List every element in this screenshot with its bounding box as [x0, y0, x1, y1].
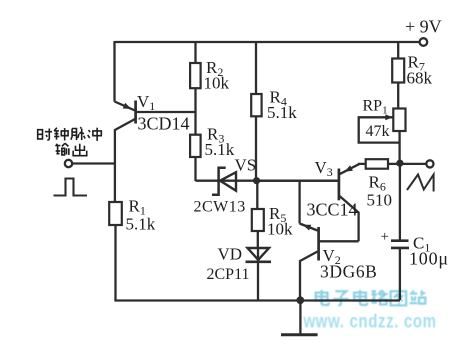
label R7 value	[407, 53, 433, 88]
transistor V3 3CC14	[339, 164, 366, 241]
resistor R4	[251, 42, 261, 181]
sawtooth waveform symbol	[407, 175, 434, 192]
clock pulse waveform symbol	[54, 179, 88, 196]
svg-text:5.1k: 5.1k	[205, 140, 235, 159]
capacitor C1	[391, 163, 409, 300]
wire bottom rail	[114, 299, 400, 301]
node VS junction dot	[253, 177, 260, 184]
label 3CC14	[307, 200, 358, 220]
label C1 plus sign	[381, 229, 389, 245]
wire R3 corner to zener	[196, 180, 339, 182]
node output junction dot	[396, 160, 403, 167]
svg-text:3CD14: 3CD14	[138, 114, 190, 134]
supply terminal +9V circle	[420, 38, 428, 46]
svg-text:100μ: 100μ	[409, 249, 449, 269]
output terminal circle	[426, 160, 433, 167]
wire left vertical from rail to V1 emitter	[113, 41, 115, 102]
wire top supply rail	[115, 41, 420, 43]
label R3 value	[205, 125, 235, 160]
node input label 时钟脉冲输出	[38, 127, 102, 155]
label 3CD14	[138, 114, 190, 134]
svg-text:5.1k: 5.1k	[267, 103, 297, 122]
svg-text:68k: 68k	[407, 69, 433, 88]
label 2CW13	[194, 199, 246, 216]
watermark site name 电子电路图站	[316, 290, 426, 305]
resistor R6	[366, 159, 400, 169]
resistor R7	[392, 42, 404, 109]
svg-text:2CP11: 2CP11	[207, 266, 250, 283]
label R6 value	[367, 173, 393, 210]
resistor R1	[109, 164, 122, 301]
svg-text:V1: V1	[137, 92, 155, 113]
label R1 value	[126, 197, 156, 234]
potentiometer RP1	[359, 109, 406, 164]
label R2 value	[204, 58, 230, 93]
label V3	[315, 158, 333, 179]
label VD	[218, 245, 243, 264]
resistor R3	[190, 112, 201, 181]
label C1 value	[409, 234, 449, 269]
svg-text:10k: 10k	[204, 74, 230, 93]
label V2	[323, 246, 341, 267]
svg-text:+: +	[381, 229, 389, 245]
svg-text:510: 510	[367, 191, 393, 210]
wire V2 base to V3 collector loop	[319, 240, 359, 242]
svg-text:3CC14: 3CC14	[307, 200, 358, 220]
resistor R2	[190, 42, 201, 112]
transistor V1 3CD14	[115, 101, 136, 164]
wire V2 emitter drop from base-net	[298, 181, 300, 224]
svg-text:V3: V3	[315, 158, 333, 179]
wire input terminal to V1 collector node	[72, 162, 115, 164]
svg-text:2CW13: 2CW13	[194, 199, 246, 216]
svg-text:5.1k: 5.1k	[126, 215, 156, 234]
svg-text:3DG6B: 3DG6B	[320, 262, 377, 282]
label R5 value	[267, 204, 293, 239]
label V1	[137, 92, 155, 113]
svg-text:VS: VS	[235, 156, 257, 175]
input terminal circle	[65, 160, 72, 167]
resistor R5	[252, 181, 264, 248]
wire V1 base to R2/R3 node	[136, 111, 196, 113]
zener diode VS 2CW13	[212, 168, 236, 195]
svg-text:RP1: RP1	[363, 98, 388, 117]
wire to output terminal	[400, 163, 426, 165]
svg-text:10k: 10k	[267, 220, 293, 239]
svg-text:www. cndzz. com: www. cndzz. com	[303, 311, 437, 332]
label VS	[235, 156, 257, 175]
label 2CP11	[207, 266, 250, 283]
wire zener node to V3 base	[257, 180, 338, 182]
label 3DG6B	[320, 262, 377, 282]
svg-text:47k: 47k	[366, 123, 390, 140]
label R4 value	[267, 88, 297, 123]
transistor V2 3DG6B	[300, 224, 319, 301]
watermark url www.cndzz.com	[303, 311, 437, 332]
label +9V	[405, 17, 442, 37]
svg-text:VD: VD	[218, 245, 243, 264]
diode VD 2CP11	[246, 248, 272, 301]
label RP1 value	[363, 98, 390, 141]
svg-text:+ 9V: + 9V	[405, 17, 442, 37]
ground	[281, 296, 318, 334]
